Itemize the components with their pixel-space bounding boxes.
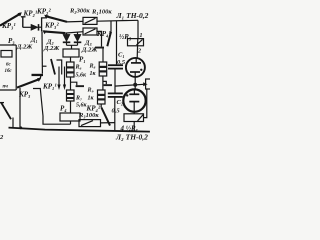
svg-text:Л₁ ТН-0,2: Л₁ ТН-0,2 bbox=[116, 11, 149, 20]
svg-text:КР₁¹: КР₁¹ bbox=[42, 83, 57, 91]
svg-text:Д.2Ж: Д.2Ж bbox=[81, 47, 98, 54]
output wire with arrow bbox=[115, 84, 144, 86]
svg-text:КР₄¹: КР₄¹ bbox=[96, 30, 111, 38]
lamp L2 top electrode bbox=[129, 93, 139, 95]
svg-text:КР₂²: КР₂² bbox=[36, 8, 51, 16]
switch KR4-2 blade bbox=[101, 108, 110, 126]
wire R8 top bbox=[102, 49, 104, 63]
wire terminal box down bbox=[144, 89, 147, 118]
lamp L1 envelope bbox=[126, 58, 145, 77]
switch KR3-2 blade bbox=[46, 16, 67, 22]
wire top bus to KR4-1 bbox=[110, 21, 112, 32]
potentiometer R5 upper half bbox=[128, 39, 144, 46]
tap bar 2 bbox=[103, 81, 106, 84]
lamp L1 bottom electrode bbox=[130, 71, 140, 73]
svg-text:R₁100к: R₁100к bbox=[91, 9, 112, 16]
svg-text:1к: 1к bbox=[88, 96, 95, 102]
svg-text:R₆: R₆ bbox=[75, 65, 82, 71]
resistor R9 bbox=[98, 90, 106, 104]
wire D1 cathode to post B bbox=[39, 26, 42, 28]
junction dot L2 top bbox=[133, 83, 137, 87]
svg-text:2: 2 bbox=[137, 49, 141, 55]
svg-text:Д.2Ж: Д.2Ж bbox=[43, 45, 60, 52]
svg-text:КР₂¹: КР₂¹ bbox=[23, 10, 38, 18]
terminal box right edge bbox=[146, 79, 152, 89]
svg-text:С₁: С₁ bbox=[118, 52, 125, 59]
svg-text:R₉: R₉ bbox=[87, 88, 94, 94]
fixed contact bar KR4-1 bbox=[95, 47, 104, 49]
diode D2 bbox=[66, 33, 68, 35]
diode D3 bbox=[77, 32, 79, 34]
potentiometer R5 lower half bbox=[124, 114, 144, 122]
svg-text:5,6к: 5,6к bbox=[76, 73, 88, 79]
capacitor C2 bbox=[108, 92, 123, 94]
lamp L2 bottom electrode bbox=[129, 101, 139, 103]
svg-text:КР₃: КР₃ bbox=[18, 91, 31, 99]
wire R7 to relay P4 bbox=[70, 101, 72, 113]
arrow link 1 bbox=[58, 67, 60, 85]
junction dot bus left bbox=[19, 126, 22, 129]
KR3 fixed contact bar bbox=[32, 74, 44, 76]
step wire to P4 row bbox=[33, 89, 71, 125]
wire R9 bottom bbox=[100, 104, 102, 108]
resistor R2 bbox=[83, 17, 97, 24]
contact group KR1-1 blade bbox=[51, 59, 55, 75]
wire left rail to bus bbox=[19, 88, 21, 128]
relay P4 coil box bbox=[60, 113, 80, 121]
wire R3 right lead bbox=[101, 122, 115, 124]
svg-text:0,5: 0,5 bbox=[112, 108, 121, 115]
wire C1 feed bbox=[116, 21, 118, 65]
svg-text:1бс: 1бс bbox=[5, 69, 13, 74]
contact group KR1-1 left rail bbox=[42, 65, 46, 67]
switch KR2-KR1 lower blade bbox=[44, 31, 65, 33]
diode D1 bbox=[31, 24, 38, 30]
svg-text:0,5: 0,5 bbox=[117, 59, 126, 66]
lamp L1 gas dot bbox=[140, 69, 142, 71]
wire P1 to R6 bbox=[70, 57, 72, 62]
wire to diode D1 bbox=[23, 26, 31, 28]
svg-text:Р₄: Р₄ bbox=[60, 105, 67, 113]
svg-text:Л₂ ТН-0,2: Л₂ ТН-0,2 bbox=[115, 132, 148, 141]
corner down to R5a and lamp L1 bbox=[137, 20, 139, 38]
svg-text:R₂300к: R₂300к bbox=[69, 8, 90, 15]
relay P3 box left edge bbox=[0, 45, 16, 90]
wire R8 to R9 with tap bbox=[102, 76, 104, 90]
svg-text:½R₅: ½R₅ bbox=[119, 33, 132, 41]
contact post node A bbox=[21, 17, 26, 28]
resistor R6 bbox=[67, 62, 75, 77]
relay P3 inner coil box bbox=[1, 51, 12, 58]
arrow link 2 bbox=[64, 67, 66, 85]
resistor R8 bbox=[99, 62, 107, 76]
svg-text:Р₁: Р₁ bbox=[79, 56, 86, 64]
switch KR3-1 blade top-left bbox=[0, 14, 21, 26]
wire L1 to L2 bbox=[134, 77, 136, 90]
wire node B down to KR3 fixed contact bbox=[41, 31, 43, 73]
svg-text:КР₃²: КР₃² bbox=[44, 22, 59, 30]
bottom bus wire bbox=[9, 128, 150, 132]
resistor R7 bbox=[67, 90, 75, 101]
svg-text:1к: 1к bbox=[90, 71, 97, 77]
svg-text:R₈: R₈ bbox=[89, 64, 96, 70]
resistor R3 bbox=[79, 120, 101, 127]
lamp L2 envelope bbox=[123, 89, 145, 111]
svg-text:R₃100к: R₃100к bbox=[78, 112, 99, 119]
wire C2 bottom to bus bbox=[114, 97, 116, 131]
svg-text:пч: пч bbox=[3, 85, 9, 90]
svg-text:1: 1 bbox=[140, 33, 143, 39]
wire R1 right lead down bbox=[97, 31, 102, 46]
relay P1 coil box bbox=[63, 49, 79, 57]
svg-text:С₂: С₂ bbox=[117, 99, 124, 106]
wire R6 to R7 with tap bbox=[70, 77, 72, 90]
svg-text:КР₃¹: КР₃¹ bbox=[1, 22, 16, 30]
capacitor C1 bbox=[108, 64, 123, 66]
svg-text:R₇: R₇ bbox=[75, 96, 82, 102]
tap bar 1 bbox=[71, 82, 77, 85]
svg-text:Р₃: Р₃ bbox=[8, 37, 15, 45]
contact post node B bbox=[42, 18, 46, 32]
svg-text:Д₃: Д₃ bbox=[84, 40, 92, 47]
svg-text:Д₁: Д₁ bbox=[30, 37, 38, 44]
resistor R1 bbox=[83, 28, 97, 35]
svg-text:6с: 6с bbox=[6, 63, 12, 68]
lamp L1 top electrode bbox=[131, 62, 141, 64]
contact group KR1-1 right rail bbox=[57, 60, 62, 75]
wire lower rail to R1 bbox=[65, 32, 83, 33]
wire joining diode cathodes bbox=[67, 45, 78, 49]
lamp L2 gas dot bbox=[126, 94, 128, 96]
wire blade pivot to bus bbox=[12, 118, 14, 129]
switch KR3 blade lower-left bbox=[17, 79, 40, 88]
svg-text:Д.2Ж: Д.2Ж bbox=[16, 44, 33, 51]
wire upper rail to R2 bbox=[67, 20, 83, 23]
svg-text:4 ½R₅: 4 ½R₅ bbox=[120, 125, 139, 133]
wire C1 to C2 bbox=[114, 69, 116, 93]
switch blade bottom-left edge bbox=[1, 102, 11, 119]
switch KR4-1 blade bbox=[107, 32, 111, 47]
top bus wire bbox=[97, 19, 138, 22]
